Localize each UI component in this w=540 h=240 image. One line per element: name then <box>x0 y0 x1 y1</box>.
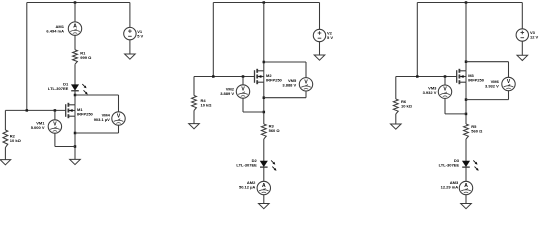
wire AM1 to R1 <box>74 35 76 50</box>
voltmeter VM1 <box>48 120 61 133</box>
wire VM4 top lead <box>118 95 120 112</box>
node junction gate net / VM1 top <box>54 109 57 112</box>
transistor M2 IRFP250 <box>255 69 264 84</box>
ground under M1 source <box>70 159 81 164</box>
wire R6 top lead <box>395 77 397 100</box>
wire top rail left circuit <box>27 2 130 4</box>
node junction source / VM3 return <box>465 113 468 116</box>
label AM3 reading <box>441 180 459 190</box>
label D2 part number <box>236 158 257 168</box>
label D3 part number <box>439 158 460 168</box>
svg-text:IRFP250: IRFP250 <box>468 77 485 82</box>
label R1 value <box>80 50 92 60</box>
wire VM1 top lead <box>54 110 56 120</box>
node junction M1 source / VM1 return <box>74 145 77 148</box>
wire V1 bottom lead <box>129 40 131 54</box>
node junction D1 cathode / VM4 branch <box>74 94 77 97</box>
node junction top rail / M3 drain branch <box>465 1 468 4</box>
wire top rail middle circuit <box>213 2 319 4</box>
svg-text:LTL-307EE: LTL-307EE <box>439 163 460 168</box>
voltmeter VM6 <box>502 77 515 90</box>
wire R1 to D1 <box>74 64 76 85</box>
resistor R6 <box>393 99 398 114</box>
resistor R3 <box>261 124 266 139</box>
wire M2 drain vertical from top <box>263 3 265 71</box>
resistor R4 <box>192 96 197 111</box>
node junction source / VM6 return <box>465 98 468 101</box>
label AM2 reading <box>239 180 256 190</box>
label VM4 reading <box>94 112 111 122</box>
wire VM3 return horizontal <box>445 113 466 115</box>
wire left vertical right <box>416 3 418 77</box>
label R6 value <box>401 99 413 109</box>
svg-text:12.29 mA: 12.29 mA <box>441 184 459 189</box>
wire VM3 top lead <box>444 77 446 87</box>
wire V2 bottom lead <box>319 42 321 56</box>
ground under R6 <box>391 124 402 129</box>
wire R4 bottom lead <box>193 111 195 124</box>
label R4 value <box>201 98 213 108</box>
svg-text:5 V: 5 V <box>327 35 333 40</box>
node junction gate net / left vertical middle <box>212 75 215 78</box>
svg-text:3.889 V: 3.889 V <box>220 91 234 96</box>
voltage source V3 <box>516 29 528 41</box>
resistor R5 <box>464 124 469 139</box>
label V3 value <box>530 30 539 40</box>
wire VM5 return horizontal <box>264 97 306 99</box>
wire VM3 bottom lead <box>444 98 446 114</box>
LED D1 <box>71 84 88 94</box>
wire drain to VM6 horizontal <box>466 61 509 63</box>
wire VM4 bottom lead <box>118 125 120 133</box>
node junction gate net / left vertical right <box>416 75 419 78</box>
ground under V2 <box>314 55 325 60</box>
label V2 value <box>327 31 333 41</box>
wire R6 bottom lead <box>395 114 397 124</box>
wire gate net middle <box>194 76 254 78</box>
svg-text:IRFP250: IRFP250 <box>266 77 283 82</box>
label VM6 reading <box>485 79 500 89</box>
wire left vertical from top rail to gate net <box>26 3 28 111</box>
label D1 part number <box>48 82 69 92</box>
transistor M3 IRFP250 <box>457 69 466 84</box>
wire M1 source down to ground <box>74 116 76 159</box>
svg-text:3.932 V: 3.932 V <box>423 90 437 95</box>
ground under R4 <box>189 124 200 129</box>
svg-text:10 kΩ: 10 kΩ <box>201 103 213 108</box>
node junction gate net / left vertical <box>26 109 29 112</box>
wire AM1 top lead <box>74 3 76 23</box>
voltage source V2 <box>313 29 325 41</box>
label R3 value <box>269 124 281 134</box>
wire R4 top lead <box>193 77 195 96</box>
wire VM4 branch top horizontal <box>75 94 119 96</box>
wire AM3 bottom lead <box>465 195 467 204</box>
ground under AM2 <box>259 204 270 209</box>
wire VM5 top lead <box>305 62 307 78</box>
voltage source V1 <box>124 27 136 39</box>
svg-text:5.000 V: 5.000 V <box>31 125 45 130</box>
LED D2 <box>260 160 277 170</box>
svg-text:560 Ω: 560 Ω <box>269 128 281 133</box>
wire R2 top lead <box>4 110 6 130</box>
svg-text:LTL-307EE: LTL-307EE <box>48 86 69 91</box>
label VM3 reading <box>423 86 438 96</box>
ground under AM3 <box>461 204 472 209</box>
label V1 value <box>137 29 143 39</box>
svg-text:560 Ω: 560 Ω <box>471 129 483 134</box>
ground under R2 <box>0 160 11 165</box>
wire V3 top lead <box>521 3 523 30</box>
LED D3 <box>462 160 479 170</box>
label M3 part <box>468 73 485 83</box>
ammeter AM3 <box>459 181 472 194</box>
svg-text:IRFP250: IRFP250 <box>77 111 94 116</box>
svg-text:3.888 V: 3.888 V <box>282 83 296 88</box>
wire VM6 bottom lead <box>508 91 510 100</box>
wire D2 to AM2 <box>263 167 265 182</box>
wire V1 top lead <box>129 3 131 28</box>
svg-text:10 kΩ: 10 kΩ <box>10 138 22 143</box>
wire VM4 return horizontal <box>75 132 119 134</box>
ground under V1 <box>125 54 136 59</box>
voltmeter VM3 <box>438 85 451 98</box>
wire gate net horizontal <box>5 109 65 111</box>
svg-text:50.12 µA: 50.12 µA <box>239 184 255 189</box>
wire VM6 top lead <box>508 62 510 78</box>
svg-text:LTL-307EE: LTL-307EE <box>236 163 257 168</box>
wire VM2 return horizontal <box>243 111 264 113</box>
node junction drain / VM5 branch <box>263 61 266 64</box>
node junction source / VM5 return <box>263 96 266 99</box>
node junction top rail / M2 drain branch <box>263 1 266 4</box>
resistor R2 <box>3 130 8 148</box>
wire VM1 bottom lead <box>54 133 56 147</box>
svg-text:12 V: 12 V <box>530 35 539 40</box>
transistor M1 IRFP250 <box>66 103 75 118</box>
label VM1 reading <box>31 120 46 130</box>
svg-text:3.932 V: 3.932 V <box>485 83 499 88</box>
ground under V3 <box>517 55 528 60</box>
node junction top rail / AM1 branch <box>74 1 77 4</box>
wire top rail right circuit <box>417 2 522 4</box>
resistor R1 <box>73 50 78 64</box>
wire left vertical middle <box>212 3 214 77</box>
wire M3 source down <box>465 82 467 124</box>
svg-text:10 kΩ: 10 kΩ <box>401 104 413 109</box>
svg-text:999 Ω: 999 Ω <box>80 55 92 60</box>
node junction drain / VM6 branch <box>465 60 468 63</box>
label M2 part <box>266 73 283 83</box>
wire D3 to AM3 <box>465 167 467 182</box>
ammeter AM2 <box>257 181 270 194</box>
wire R5 to D3 <box>465 139 467 161</box>
label VM5 reading <box>282 78 297 88</box>
wire D1 to drain node <box>74 91 76 105</box>
voltmeter VM5 <box>299 78 312 91</box>
wire drain to VM5 horizontal <box>264 61 306 63</box>
label VM2 reading <box>220 86 235 96</box>
svg-text:6.494 mA: 6.494 mA <box>46 28 64 33</box>
wire VM2 top lead <box>242 77 244 86</box>
ammeter AM1 <box>68 22 81 35</box>
wire V3 bottom lead <box>521 41 523 55</box>
svg-text:5 V: 5 V <box>137 34 143 39</box>
wire VM5 bottom lead <box>305 91 307 98</box>
node junction source / VM2 return <box>263 111 266 114</box>
wire R2 bottom lead <box>4 148 6 160</box>
node junction M1 source / VM4 return <box>74 132 77 135</box>
wire gate net right <box>396 76 457 78</box>
wire M3 drain vertical from top <box>465 3 467 71</box>
wire V2 top lead <box>319 3 321 30</box>
label R5 value <box>471 124 483 134</box>
wire R3 to D2 <box>263 139 265 161</box>
wire VM1 return horizontal <box>55 146 75 148</box>
wire VM6 return horizontal <box>466 99 509 101</box>
voltmeter VM2 <box>236 85 249 98</box>
label M1 part <box>77 107 94 117</box>
label R2 value <box>10 133 22 143</box>
wire M2 source down <box>263 82 265 124</box>
svg-text:903.1 µV: 903.1 µV <box>94 117 110 122</box>
wire VM2 bottom lead <box>242 98 244 112</box>
label AM1 reading <box>46 24 64 34</box>
wire AM2 bottom lead <box>263 195 265 204</box>
node junction gate net / VM2 top <box>242 75 245 78</box>
voltmeter VM4 <box>112 112 125 125</box>
node junction gate net / VM3 top <box>444 75 447 78</box>
